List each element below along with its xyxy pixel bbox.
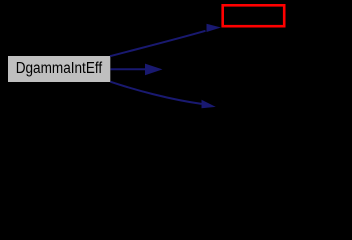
svg-text:DgammaIntEff: DgammaIntEff bbox=[16, 60, 103, 77]
node truncated red bbox=[223, 5, 285, 26]
node DgammaIntEff bbox=[8, 56, 110, 82]
edge to red node (wire) bbox=[110, 24, 221, 56]
edge middle (wire) bbox=[111, 64, 163, 76]
edge bottom (wire) bbox=[110, 82, 216, 109]
